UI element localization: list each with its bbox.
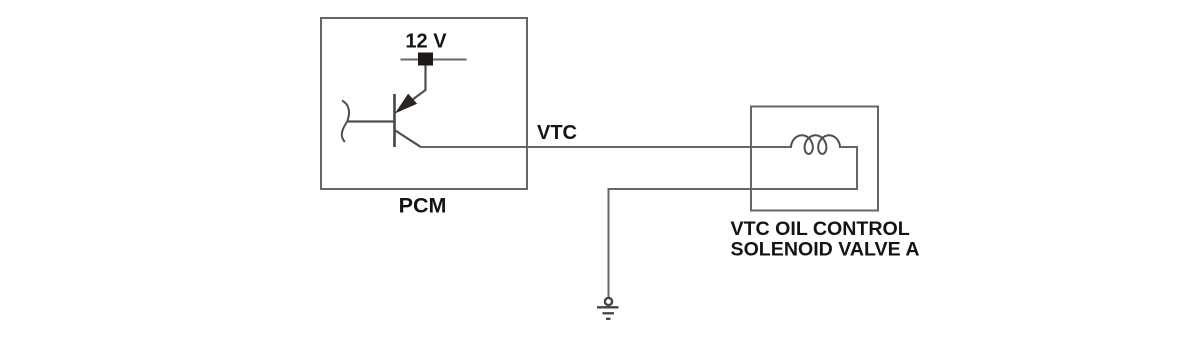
ground terminal circle	[605, 298, 612, 305]
svg-text:12 V: 12 V	[405, 31, 447, 53]
PCM box	[321, 18, 527, 189]
transistor Q1 collector lead	[395, 130, 421, 147]
power tap filled square	[418, 53, 433, 66]
ground bar 2	[603, 312, 615, 314]
svg-text:VTC: VTC	[537, 122, 577, 144]
transistor Q1 emitter arrowhead	[396, 95, 416, 113]
ground bar 1	[597, 306, 619, 308]
wire-break squiggle on base lead	[342, 101, 349, 143]
wire VTC from PCM to solenoid coil	[420, 146, 792, 148]
solenoid coil L1	[791, 135, 840, 154]
ground bar 3	[606, 318, 611, 320]
svg-text:SOLENOID VALVE A: SOLENOID VALVE A	[731, 238, 920, 260]
solenoid box	[751, 107, 878, 211]
wire from coil to ground run	[609, 147, 858, 298]
svg-text:VTC OIL CONTROL: VTC OIL CONTROL	[731, 218, 910, 240]
transistor Q1 base lead	[348, 120, 395, 122]
svg-text:PCM: PCM	[399, 193, 447, 217]
wire from 12V square to transistor emitter	[405, 66, 426, 106]
transistor Q1 base bar	[393, 94, 396, 147]
power rail 12V horizontal line	[401, 59, 467, 61]
